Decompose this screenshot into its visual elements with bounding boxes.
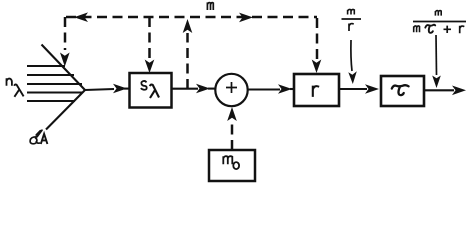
label n-lambda: [7, 78, 12, 86]
arrowhead into s-lambda box: [113, 84, 127, 94]
wire: fan vertex to s-lambda box: [85, 89, 114, 90]
arrowhead up into feedback line: [183, 19, 193, 33]
label fraction m/r: [348, 9, 355, 14]
wire: dashed feedback line m (horizontal, top): [66, 16, 317, 19]
arrowhead down onto fan diagonal: [60, 53, 70, 67]
wire: solid pointer from m/r label down to r-tau line: [351, 40, 352, 71]
arrowhead into summing junction: [196, 84, 210, 94]
wire: s-lambda box to summing junction: [171, 88, 198, 90]
wire: dashed branch down to spectrum fan: [64, 17, 67, 50]
label fraction m/(m tau + r): [435, 11, 441, 16]
wire: dashed from m0 box up into summing junction: [231, 121, 234, 150]
wire: dashed branch down into r box: [316, 18, 319, 61]
spectrum fan: upper diagonal: [42, 45, 86, 91]
block r: [294, 74, 339, 106]
wire: summing junction to r box: [248, 88, 280, 90]
arrowhead down into s-lambda box: [145, 60, 155, 74]
wire: tau box output: [424, 89, 454, 91]
spectrum fan: lower diagonal: [46, 90, 85, 130]
block m0: [209, 150, 255, 181]
wire: dashed branch down into s-lambda box: [148, 17, 151, 60]
arrowhead left on feedback line: [74, 12, 88, 22]
label rho-A: [30, 130, 42, 144]
arrowhead into tau box: [365, 84, 379, 94]
block tau: [381, 76, 424, 106]
summing junction circle: [215, 74, 247, 106]
arrowhead into r box: [278, 84, 292, 94]
plus sign: [226, 82, 237, 93]
label m (feedback line): [207, 2, 213, 10]
wire: dashed pickoff branch up from s-lambda output: [186, 33, 189, 89]
wire: solid pointer from m/(m tau + r) down to output line: [435, 35, 438, 75]
arrowhead up into summing junction: [227, 107, 237, 121]
wire: r box to tau box: [339, 88, 367, 90]
arrowhead on output: [452, 86, 466, 96]
arrowhead down into r box: [312, 60, 322, 74]
block s-lambda: [130, 73, 172, 108]
arrowhead right on feedback line: [239, 13, 253, 23]
spectrum fan input: five horizontal rays: [27, 65, 65, 67]
